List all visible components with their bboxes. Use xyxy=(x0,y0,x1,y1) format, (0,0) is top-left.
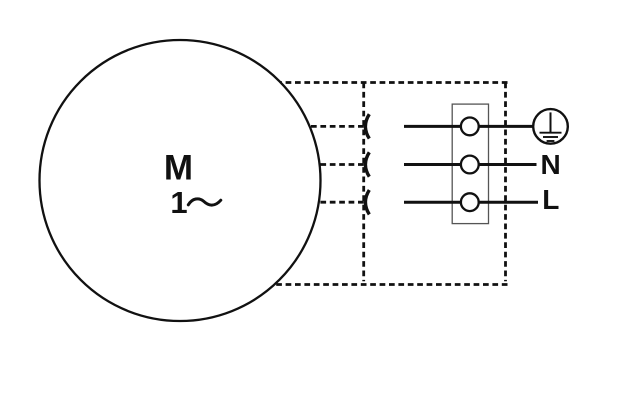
svg-text:L: L xyxy=(542,184,559,215)
earth bar 1 xyxy=(540,132,562,134)
terminal N xyxy=(461,156,479,174)
terminal strip outline xyxy=(452,104,488,224)
svg-text:N: N xyxy=(541,149,561,180)
terminal-box dashed enclosure bottom edge xyxy=(262,283,508,286)
earth bar 3 xyxy=(547,140,555,142)
wire N supply side (solid) xyxy=(404,163,537,166)
connector plug N xyxy=(365,152,369,176)
wire N motor side (dashed) xyxy=(298,163,364,166)
wire PE motor side (dashed) xyxy=(298,125,364,128)
wire L motor side (dashed) xyxy=(298,201,364,204)
wire L supply side (solid) xyxy=(404,201,538,204)
motor M circle xyxy=(40,40,321,321)
protective earth symbol circle xyxy=(533,109,568,144)
svg-text:M: M xyxy=(164,149,193,188)
terminal L xyxy=(461,193,479,211)
earth bar 2 xyxy=(543,136,558,138)
terminal PE xyxy=(461,118,479,136)
connector plug PE xyxy=(365,114,369,138)
connector plug L xyxy=(365,190,369,214)
motor/terminal-box dashed partition xyxy=(362,83,365,282)
earth stem xyxy=(550,112,552,132)
terminal-box dashed enclosure right edge xyxy=(504,83,507,282)
wire PE supply side (solid) xyxy=(404,125,534,128)
terminal-box dashed enclosure top edge xyxy=(266,81,508,84)
svg-text:1: 1 xyxy=(170,185,187,220)
motor label tilde (AC) xyxy=(188,199,221,205)
